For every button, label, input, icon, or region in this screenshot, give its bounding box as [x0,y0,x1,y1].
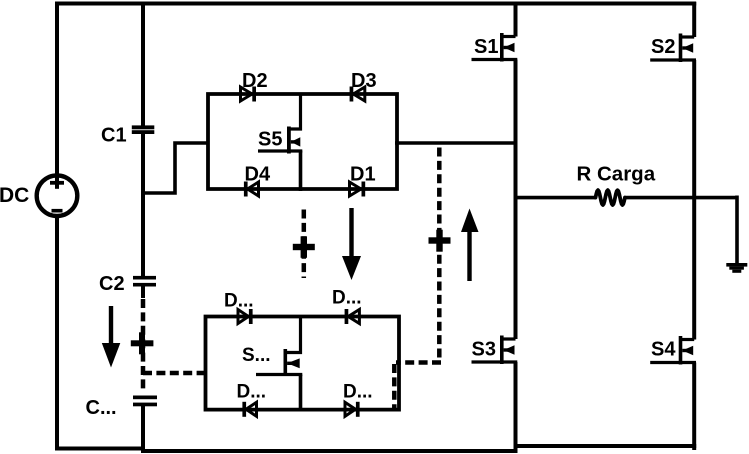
svg-text:S4: S4 [651,339,676,361]
svg-text:S...: S... [242,345,271,366]
svg-text:C2: C2 [99,273,125,295]
svg-text:R Carga: R Carga [577,163,656,186]
svg-text:D...: D... [332,288,362,309]
svg-text:C...: C... [86,397,117,419]
svg-text:D3: D3 [351,70,377,92]
svg-text:D...: D... [224,291,254,312]
svg-text:D1: D1 [350,164,376,186]
svg-text:D2: D2 [242,70,268,92]
svg-text:S2: S2 [651,36,675,58]
svg-text:D...: D... [343,382,373,403]
svg-text:C1: C1 [101,125,127,147]
svg-text:S3: S3 [472,339,496,361]
svg-text:S1: S1 [474,36,498,58]
svg-text:D4: D4 [245,164,271,186]
svg-text:D...: D... [237,382,267,403]
svg-text:S5: S5 [258,129,282,151]
svg-text:DC: DC [0,184,29,207]
